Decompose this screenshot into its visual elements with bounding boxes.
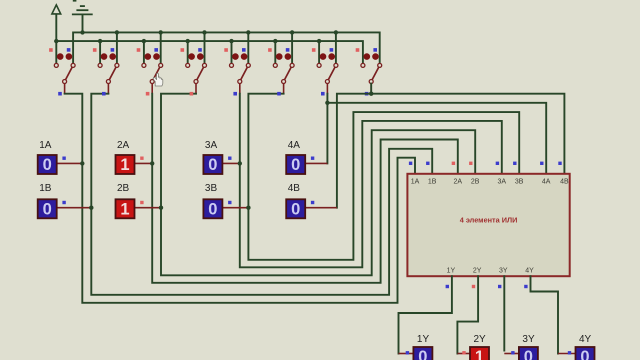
junction: switch 3 right throw on upper rail: [159, 30, 163, 34]
wire net 1B: SW2 pole to probe 1B, bus and IC pin 1B: [91, 92, 432, 295]
IC pin 4Y label and state: [524, 268, 534, 289]
wire: right throw drop: [204, 32, 206, 63]
svg-text:4A: 4A: [288, 140, 301, 151]
svg-text:1Y: 1Y: [417, 334, 430, 345]
wire net 4A: SW7 pole to probe 4A and IC pin 4A: [321, 92, 327, 163]
logic probe 4A (value 0): [286, 140, 327, 174]
svg-text:0: 0: [208, 156, 217, 174]
wire: right throw drop: [160, 32, 162, 63]
IC pin 4A label and state: [540, 162, 551, 186]
junction: wire net 4B probe pin: [369, 92, 373, 96]
switch SW4 (SPDT): [181, 48, 207, 94]
switch SW6 (SPDT): [268, 48, 294, 94]
svg-text:1: 1: [120, 156, 129, 174]
svg-text:4A: 4A: [542, 179, 551, 186]
junction: switch 2 right throw on upper rail: [115, 30, 119, 34]
wire: left throw drop: [274, 41, 276, 63]
wire: right throw drop: [116, 32, 118, 63]
switch SW8 (SPDT): [356, 48, 382, 94]
junction: wire net 2A probe pin: [150, 161, 154, 165]
svg-text:2A: 2A: [454, 179, 463, 186]
wire: left throw drop: [318, 41, 320, 63]
switch SW5 (SPDT): [224, 48, 250, 94]
svg-text:0: 0: [291, 200, 300, 218]
logic probe 4Y (value 0): [558, 334, 595, 360]
svg-text:4B: 4B: [560, 179, 569, 186]
IC pin 2A label and state: [452, 162, 463, 186]
junction: switch 6 right throw on upper rail: [290, 30, 294, 34]
wire net 1Y: IC pin 1Y to probe 1Y: [399, 276, 452, 353]
IC pin 1Y label and state: [446, 268, 456, 289]
svg-text:4 элемента ИЛИ: 4 элемента ИЛИ: [460, 215, 518, 224]
wire: right throw drop: [291, 32, 293, 63]
switch SW1 (SPDT): [49, 48, 75, 94]
wire net 4B: SW8 pole to H1 rail: [365, 84, 371, 96]
logic probe 2Y (value 1): [457, 334, 489, 360]
junction: switch 4 left throw on lower rail: [186, 39, 190, 43]
svg-text:0: 0: [43, 156, 52, 174]
wire: left throw drop: [231, 41, 233, 63]
wire: lower power rail: [56, 41, 363, 63]
junction: wire net 1B probe pin: [89, 206, 93, 210]
wire net 4Y: IC pin 4Y to probe 4Y: [531, 276, 559, 353]
junction: switch 6 left throw on lower rail: [273, 39, 277, 43]
wire: upper ground rail: [73, 32, 380, 63]
svg-text:3A: 3A: [498, 179, 507, 186]
svg-text:4Y: 4Y: [525, 268, 534, 275]
svg-text:2B: 2B: [471, 179, 480, 186]
logic probe 2A (value 1): [116, 140, 153, 174]
svg-text:1B: 1B: [39, 183, 52, 194]
svg-text:3A: 3A: [205, 140, 218, 151]
svg-text:0: 0: [418, 348, 427, 360]
cut-off symbol at top edge: [73, 0, 77, 2]
svg-text:0: 0: [580, 348, 589, 360]
svg-text:0: 0: [208, 200, 217, 218]
wire net 4B: probe 4B riser, across to IC pin 4B: [337, 94, 565, 208]
junction: power to lower rail: [54, 39, 58, 43]
IC pin 4B label and state: [558, 162, 569, 186]
logic probe 1A (value 0): [38, 140, 83, 174]
IC pin 1A label and state: [409, 162, 420, 186]
IC U1: 4 OR elements (74HC32-style): [407, 174, 569, 276]
wire: left throw drop: [187, 41, 189, 63]
svg-text:2Y: 2Y: [474, 334, 487, 345]
junction: wire net 3A probe pin: [238, 161, 242, 165]
svg-text:3B: 3B: [515, 179, 524, 186]
logic probe 3A (value 0): [203, 140, 239, 174]
logic probe 1B (value 0): [38, 183, 92, 218]
svg-text:1A: 1A: [411, 179, 420, 186]
wire net 2Y: IC pin 2Y to probe 2Y: [457, 276, 478, 353]
svg-text:1: 1: [120, 200, 129, 218]
junction: switch 7 right throw on upper rail: [334, 30, 338, 34]
svg-text:2Y: 2Y: [473, 268, 482, 275]
switch SW7 (SPDT): [312, 48, 338, 94]
svg-text:1B: 1B: [428, 179, 437, 186]
wire: left throw drop: [99, 41, 101, 63]
junction: wire net 4A probe pin: [325, 101, 329, 105]
wire net 2A: SW3 pole to probe 2A, bus and IC pin 2A: [146, 92, 458, 283]
svg-text:4B: 4B: [288, 183, 301, 194]
logic probe 4B (value 0): [286, 183, 337, 218]
junction: ground to upper rail: [80, 30, 84, 34]
svg-text:1A: 1A: [39, 140, 52, 151]
IC pin 3B label and state: [513, 162, 524, 186]
svg-text:1Y: 1Y: [447, 268, 456, 275]
wire net 4A horizontal to IC pin 4A: [327, 103, 546, 174]
junction: switch 7 left throw on lower rail: [317, 39, 321, 43]
wire net 2B: SW4 pole to probe 2B, bus and IC pin 2B: [161, 92, 475, 275]
junction: switch 2 left throw on lower rail: [98, 39, 102, 43]
junction: switch 5 left throw on lower rail: [229, 39, 233, 43]
wire net 3Y: IC pin 3Y to probe 3Y: [503, 276, 505, 350]
svg-text:3Y: 3Y: [499, 268, 508, 275]
svg-text:0: 0: [43, 200, 52, 218]
logic probe 1Y (value 0): [399, 334, 433, 360]
IC pin 1B label and state: [426, 162, 437, 186]
ground symbol: [72, 6, 93, 32]
junction: switch 5 right throw on upper rail: [246, 30, 250, 34]
logic probe 3Y (value 0): [504, 334, 538, 360]
logic probe 2B (value 1): [116, 183, 162, 218]
junction: switch 3 left throw on lower rail: [142, 39, 146, 43]
junction: wire net 3B probe pin: [246, 206, 250, 210]
svg-text:0: 0: [524, 348, 533, 360]
wire: right throw drop: [247, 32, 249, 63]
svg-text:4Y: 4Y: [579, 334, 592, 345]
junction: wire net 1A probe pin: [80, 161, 84, 165]
svg-text:3Y: 3Y: [522, 334, 535, 345]
svg-text:1: 1: [475, 348, 484, 360]
IC pin 2B label and state: [469, 162, 480, 186]
IC pin 3A label and state: [496, 162, 507, 186]
IC pin 2Y label and state: [472, 268, 482, 289]
power symbol VCC: [52, 5, 61, 41]
svg-text:3B: 3B: [205, 183, 218, 194]
svg-text:2A: 2A: [117, 140, 130, 151]
switch SW2 (SPDT): [93, 48, 119, 94]
IC pin 3Y label and state: [498, 268, 508, 289]
mouse cursor (hand): [153, 73, 162, 86]
wire: left throw drop: [143, 41, 145, 63]
wire: right throw drop: [335, 32, 337, 63]
svg-text:0: 0: [291, 156, 300, 174]
wire net 1A: SW1 pole to probe 1A, bus and IC pin 1A: [58, 92, 415, 303]
logic probe 3B (value 0): [203, 183, 248, 218]
junction: wire net 2B probe pin: [159, 206, 163, 210]
junction: switch 4 right throw on upper rail: [202, 30, 206, 34]
wire net 3B: SW6 pole to probe 3B, bus and IC pin 3B: [248, 92, 519, 260]
wire net 3A: SW5 pole to probe 3A, bus and IC pin 3A: [233, 92, 501, 267]
switch SW3 (SPDT): [137, 48, 163, 94]
svg-text:2B: 2B: [117, 183, 130, 194]
